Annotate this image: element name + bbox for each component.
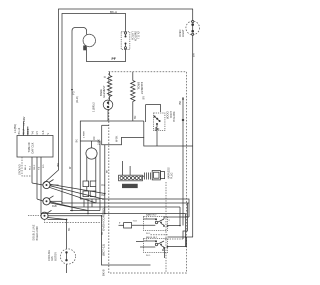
wire TOD feeds	[23, 122, 25, 136]
big dashed control box	[109, 72, 187, 273]
wire drop from bus to relay2	[183, 203, 187, 239]
svg-text:BK-1: BK-1	[25, 164, 27, 170]
lamp oven light DS1	[178, 20, 200, 37]
svg-text:BR: BR	[192, 53, 196, 57]
wire relay2 outputs	[140, 246, 155, 248]
svg-text:MOTOR: MOTOR	[54, 252, 57, 261]
svg-text:DLB: DLB	[52, 205, 57, 208]
svg-text:BK: BK	[56, 163, 60, 167]
svg-text:BREAK 240V: BREAK 240V	[36, 226, 39, 241]
resistor bake element	[99, 72, 112, 98]
plug symbol	[143, 175, 144, 177]
wire TOD drops	[31, 157, 33, 183]
svg-text:BROIL RLY: BROIL RLY	[146, 237, 158, 239]
door lock switch block	[146, 105, 177, 146]
wire y121 to right	[108, 120, 144, 122]
door lock motor M1	[83, 34, 95, 46]
svg-text:BAKE RLY: BAKE RLY	[146, 214, 157, 217]
wire outer top border L1	[44, 9, 194, 184]
relay contact RY1 top	[143, 214, 171, 236]
pilot circle	[86, 148, 97, 159]
svg-text:ELEMENT: ELEMENT	[140, 82, 144, 95]
svg-text:DAY CLK: DAY CLK	[31, 142, 35, 153]
resistor broil element	[131, 72, 144, 121]
wire sensor down to bus	[80, 110, 108, 141]
dashed sub box relays	[165, 182, 167, 272]
door latch switch S1	[121, 31, 140, 49]
svg-text:OR-3: OR-3	[34, 164, 36, 170]
svg-text:N.O.: N.O.	[146, 233, 151, 235]
svg-text:LIGHT: LIGHT	[181, 29, 185, 37]
wire relay1 outputs	[164, 217, 189, 219]
relay contact RY2 bottom	[143, 237, 168, 257]
switch circle SW3	[41, 210, 67, 219]
svg-text:OC: OC	[93, 136, 96, 140]
svg-text:L1 (BK): L1 (BK)	[13, 124, 17, 133]
svg-text:BK-12: BK-12	[18, 127, 21, 134]
svg-text:1 PWR: 1 PWR	[84, 131, 86, 138]
svg-text:W-BK: W-BK	[116, 135, 119, 142]
svg-text:W-14: W-14	[23, 128, 26, 134]
svg-text:BK-B: BK-B	[102, 269, 106, 276]
sensor circle S2	[92, 96, 113, 113]
svg-text:SWITCH: SWITCH	[172, 112, 176, 122]
svg-text:(BCT-12): (BCT-12)	[102, 244, 106, 256]
wire bus lines	[103, 199, 189, 203]
svg-text:GY: GY	[36, 131, 39, 135]
svg-text:(DLM): (DLM)	[76, 96, 79, 103]
connector block P1	[119, 161, 174, 188]
svg-text:PLUG: PLUG	[171, 172, 174, 179]
relay K2 coil	[83, 191, 89, 197]
node motor terminal B	[83, 46, 86, 51]
door lock motor M1 loop	[72, 28, 87, 201]
svg-text:(N.O.): (N.O.)	[137, 32, 141, 39]
svg-text:GROUND: GROUND	[19, 164, 22, 175]
svg-text:N.O.: N.O.	[146, 255, 151, 257]
wire inner top line BK-A	[62, 14, 126, 202]
wire BK drop bottom left	[102, 216, 151, 265]
svg-text:BK: BK	[178, 101, 182, 105]
svg-text:PF: PF	[112, 57, 116, 61]
wire dashed bus	[48, 219, 67, 221]
relay K1 coil	[83, 181, 89, 187]
wire latch to PF	[87, 47, 126, 62]
svg-text:BK: BK	[68, 227, 71, 231]
thermal cutout TCO	[119, 221, 156, 229]
svg-text:TIME OF: TIME OF	[27, 142, 31, 153]
svg-text:L1 208V: L1 208V	[23, 116, 26, 125]
wire drop control to bus	[104, 145, 106, 214]
wire BR right side	[192, 9, 194, 21]
wire staircase bus	[102, 125, 193, 146]
svg-text:BR: BR	[143, 96, 146, 100]
switch circle SW1	[32, 180, 105, 204]
svg-text:ELEMENT: ELEMENT	[102, 85, 106, 98]
box time of day clock	[17, 127, 53, 157]
wire BK right vertical	[182, 97, 184, 226]
svg-text:BK: BK	[76, 139, 79, 143]
motor cooling fan M2	[48, 219, 76, 273]
svg-text:TCO: TCO	[133, 221, 138, 223]
svg-text:BK-A: BK-A	[110, 10, 117, 14]
svg-text:1 (BR) 2: 1 (BR) 2	[92, 102, 96, 112]
svg-text:BR: BR	[134, 115, 137, 119]
svg-text:R-8: R-8	[42, 130, 45, 135]
box relay board K	[76, 136, 106, 199]
switch circle SW2	[37, 196, 88, 211]
